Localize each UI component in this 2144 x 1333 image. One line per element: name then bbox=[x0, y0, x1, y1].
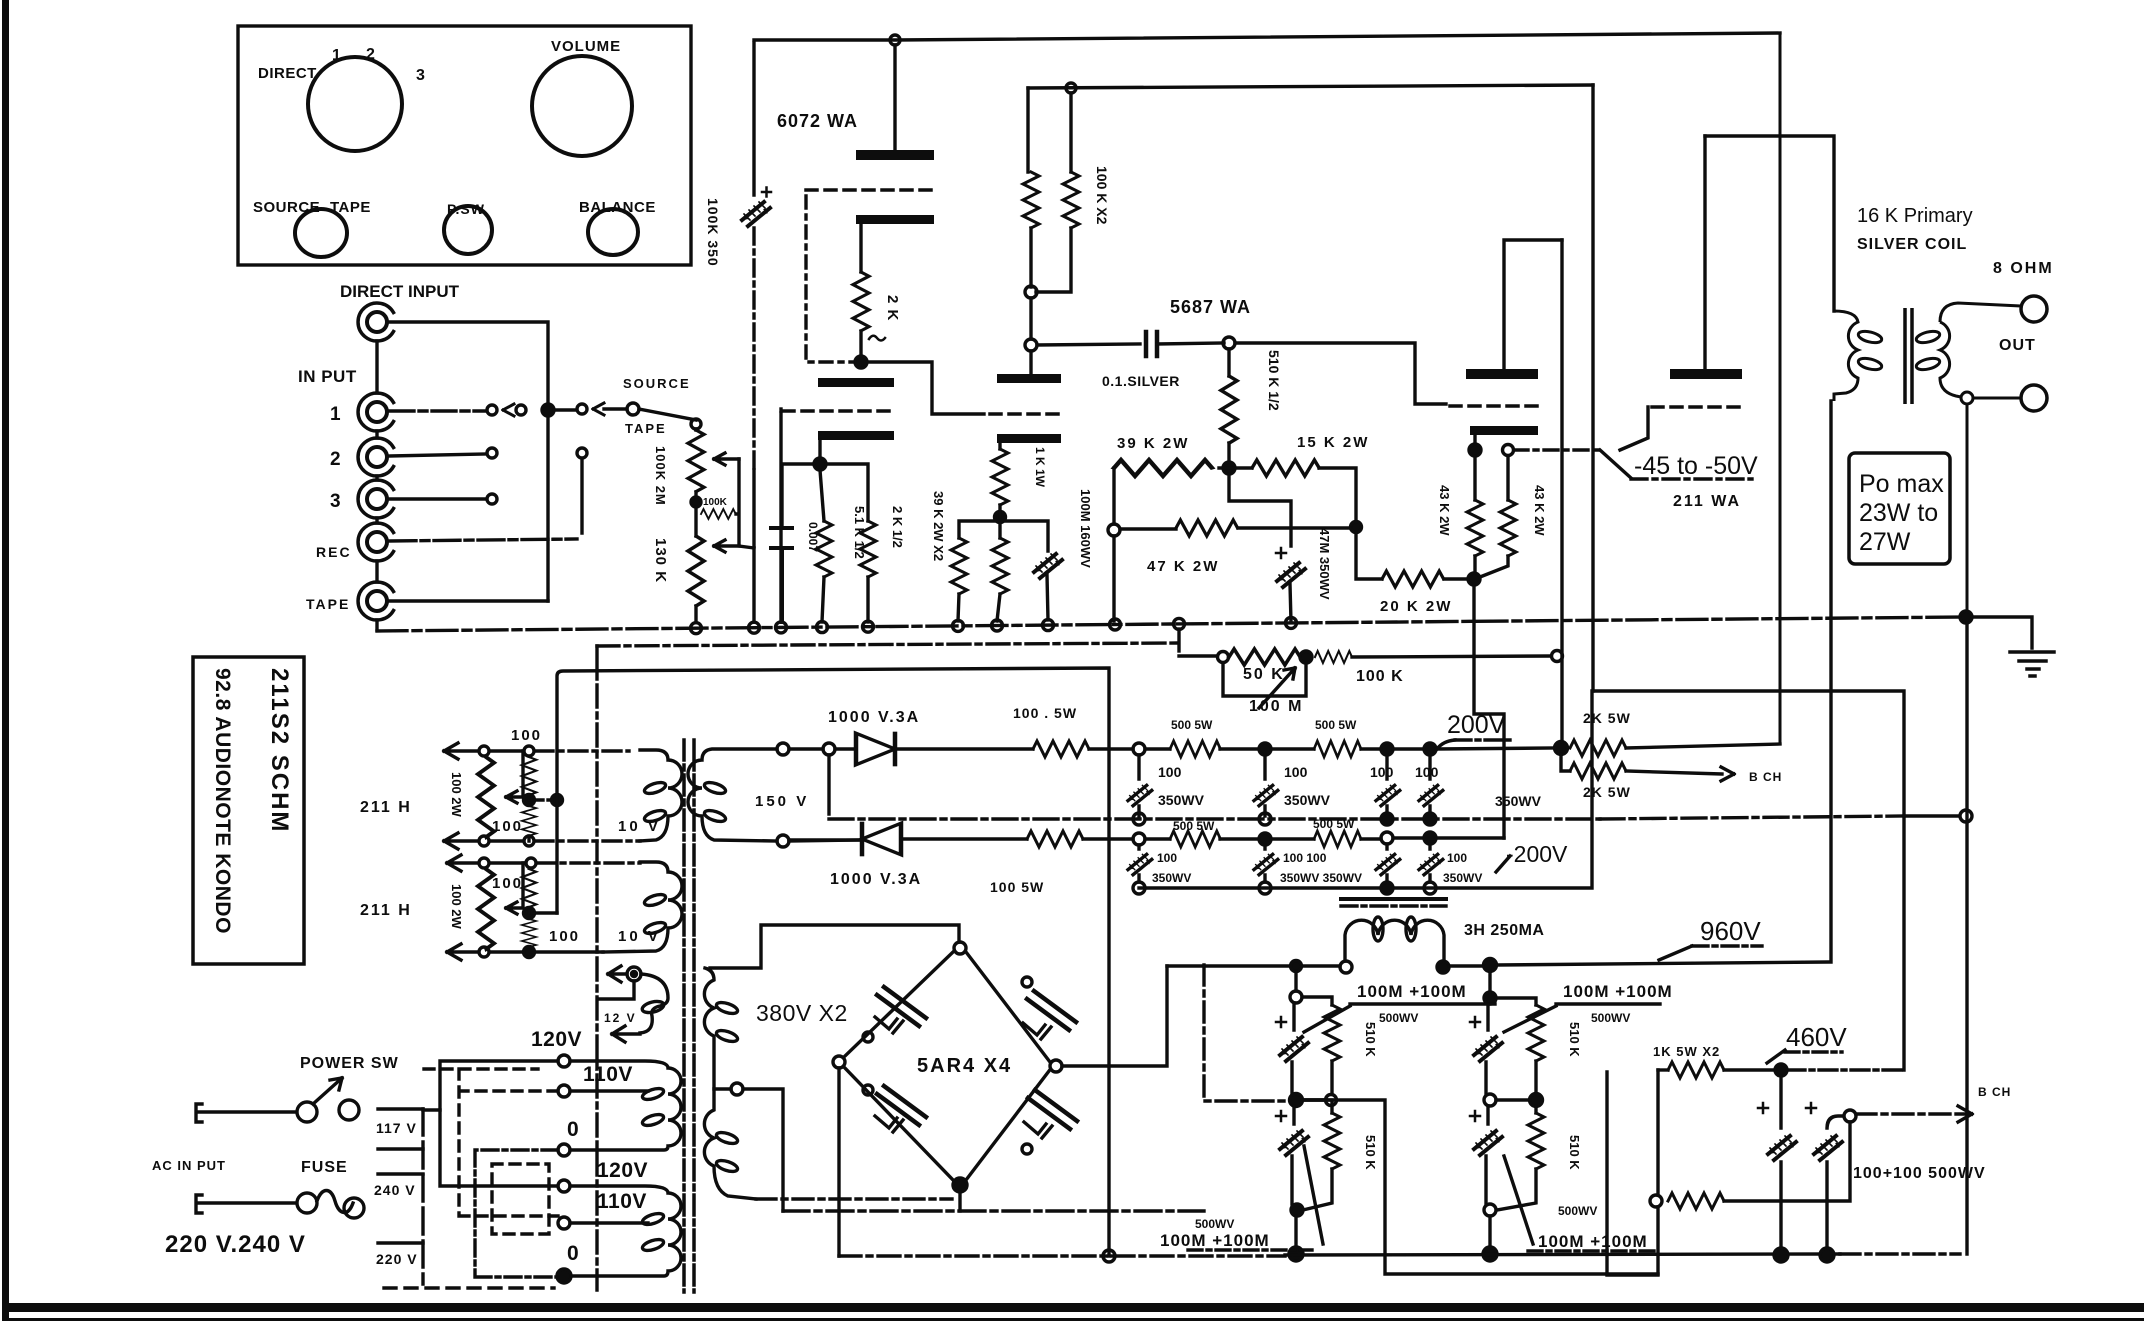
svg-text:1K 5W X2: 1K 5W X2 bbox=[1653, 1044, 1720, 1059]
svg-text:TAPE: TAPE bbox=[306, 596, 350, 612]
wire 100K right bbox=[1352, 656, 1551, 657]
wire bus to ground bbox=[1972, 617, 2032, 648]
grid node ring bbox=[1223, 337, 1235, 349]
junction dot bbox=[1259, 743, 1271, 755]
cap risers bbox=[1781, 1076, 1843, 1250]
svg-text:100 K X2: 100 K X2 bbox=[1094, 166, 1110, 225]
12V terminal bbox=[627, 967, 641, 981]
svg-text:100+100 500WV: 100+100 500WV bbox=[1853, 1165, 1986, 1182]
resistor 39K 2W bbox=[1114, 460, 1212, 476]
bus dots lower right bbox=[1774, 1248, 1788, 1262]
vertical 1779 from top rail bbox=[1779, 33, 1782, 744]
contact arrow bbox=[503, 404, 514, 416]
right bank drop bbox=[1488, 971, 1491, 992]
switch contacts bbox=[297, 1102, 317, 1122]
svg-text:211 H: 211 H bbox=[360, 902, 412, 919]
title box bbox=[193, 657, 304, 964]
top B+ rail bbox=[754, 33, 1780, 40]
bridge bottom link bbox=[958, 1192, 961, 1211]
bus junction bbox=[992, 620, 1003, 631]
svg-text:POWER SW: POWER SW bbox=[300, 1055, 399, 1072]
resistor 43K b bbox=[1500, 500, 1516, 556]
svg-text:2K 5W: 2K 5W bbox=[1583, 784, 1631, 800]
node diamond bbox=[1530, 1094, 1543, 1107]
resistor 100 5W lower bbox=[1027, 831, 1083, 847]
OUT return lower vertical bbox=[1965, 623, 1968, 1254]
svg-text:B CH: B CH bbox=[1978, 1085, 2011, 1099]
wire ring down bbox=[1112, 536, 1115, 621]
svg-text:39 K 2W X2: 39 K 2W X2 bbox=[931, 491, 946, 561]
resistor 39K 2W X2 a bbox=[951, 538, 967, 594]
460V row bbox=[1658, 1068, 1668, 1071]
tube 6072b cathode bar bbox=[997, 374, 1061, 383]
100K bottoms bbox=[1031, 228, 1071, 292]
left bank drop bbox=[1294, 972, 1297, 991]
contact above REC riser bbox=[577, 448, 587, 458]
svg-text:500 5W: 500 5W bbox=[1313, 817, 1355, 831]
pot 100 2W a bbox=[478, 757, 494, 837]
choke loop a bbox=[1373, 917, 1383, 941]
second rail 460V bbox=[1028, 85, 1593, 88]
cathode2 lead bbox=[818, 440, 821, 458]
wire cap to grid node bbox=[1157, 343, 1224, 344]
bridge left ring bbox=[833, 1056, 845, 1068]
resistor 100 a2 bbox=[522, 806, 536, 836]
knob P.SW bbox=[444, 206, 492, 254]
border bottom bbox=[2, 1303, 2144, 1312]
svg-text:92.8 AUDIONOTE KONDO: 92.8 AUDIONOTE KONDO bbox=[211, 668, 234, 934]
svg-text:220 V.240 V: 220 V.240 V bbox=[165, 1231, 306, 1258]
960V rail bbox=[1497, 401, 1831, 965]
cathode bypass cap (panel line) bbox=[742, 202, 770, 226]
wire to B CH arrow bbox=[1626, 767, 1734, 781]
svg-text:100: 100 bbox=[1415, 764, 1439, 780]
switch wire bbox=[196, 1104, 296, 1122]
contact bbox=[577, 404, 587, 414]
jack input 2 bbox=[358, 438, 393, 476]
junction dot bbox=[1300, 651, 1312, 663]
knob DIRECT bbox=[308, 57, 402, 151]
jack input 1 bbox=[358, 393, 393, 431]
left 510K loop top bbox=[1302, 997, 1332, 1005]
bus dot bbox=[1483, 1247, 1497, 1261]
junction left bank bbox=[1291, 961, 1302, 972]
capacitor 100 350WV b bbox=[1254, 785, 1278, 805]
resistor 510 K d bbox=[1528, 1113, 1544, 1169]
capacitor 100M 160WV bbox=[1034, 554, 1062, 578]
valve 5AR4 TL bbox=[875, 987, 926, 1033]
svg-text:150 V: 150 V bbox=[755, 793, 809, 810]
mid bus end ring bbox=[1960, 810, 1972, 822]
svg-text:1 K 1W: 1 K 1W bbox=[1033, 447, 1047, 488]
pot lower element bbox=[688, 536, 704, 606]
wire source to pot bbox=[604, 409, 696, 420]
svg-text:500WV: 500WV bbox=[1195, 1217, 1234, 1231]
resistor 39K 2W X2 b bbox=[992, 538, 1008, 594]
jack input 3 bbox=[358, 480, 393, 518]
tie bbox=[1302, 1098, 1326, 1101]
filter cap leads row2 bbox=[1139, 844, 1430, 882]
vertical 1562 bbox=[1560, 240, 1563, 742]
svg-text:510 K 1/2: 510 K 1/2 bbox=[1266, 350, 1282, 411]
resistor 2K bbox=[853, 272, 869, 331]
bottom dashes bbox=[384, 1286, 554, 1289]
resistor 2K 5W upper bbox=[1570, 740, 1626, 756]
resistor 500 5W d bbox=[1314, 831, 1361, 847]
heater rows dashes bbox=[535, 749, 629, 752]
svg-text:350WV: 350WV bbox=[1158, 792, 1205, 808]
wire plate top to OPT bbox=[1705, 136, 1834, 311]
jack REC bbox=[358, 523, 393, 561]
svg-text:100: 100 bbox=[549, 928, 580, 945]
wire down to 200V bbox=[1474, 585, 1504, 838]
svg-text:500 5W: 500 5W bbox=[1315, 718, 1357, 732]
svg-text:100 K: 100 K bbox=[1356, 668, 1404, 685]
resistor 100K X2 a bbox=[1023, 172, 1039, 228]
svg-text:510 K: 510 K bbox=[1567, 1135, 1582, 1170]
choke 3H 250MA winding bbox=[1345, 920, 1444, 961]
12V winding bbox=[640, 974, 668, 1033]
border left bbox=[2, 0, 9, 1321]
plus bbox=[1276, 1111, 1286, 1121]
bus ring bbox=[1103, 1250, 1115, 1262]
wire choke out to node bbox=[1449, 964, 1483, 967]
svg-text:TAPE: TAPE bbox=[330, 199, 371, 216]
vertical 1593 rail bbox=[1591, 85, 1594, 691]
43K leads bbox=[1475, 456, 1508, 577]
primary loop a bbox=[1857, 329, 1883, 345]
svg-text:SOURCE: SOURCE bbox=[253, 199, 320, 216]
svg-text:VOLUME: VOLUME bbox=[551, 38, 621, 55]
capacitor 47M 350WV bbox=[1277, 563, 1305, 587]
svg-text:500WV: 500WV bbox=[1558, 1204, 1597, 1218]
wire bbox=[1361, 837, 1381, 840]
svg-text:500 5W: 500 5W bbox=[1173, 819, 1215, 833]
resistor 500 5W b bbox=[1314, 741, 1361, 757]
1K left vertical bbox=[1656, 1070, 1659, 1195]
svg-text:8 OHM: 8 OHM bbox=[1993, 260, 2054, 277]
svg-text:100M +100M: 100M +100M bbox=[1357, 982, 1467, 1001]
wire 1K b to cap riser bbox=[1724, 1122, 1850, 1201]
tie bbox=[1496, 1098, 1530, 1101]
diode 1000V .3A upper bbox=[856, 733, 895, 765]
wire bbox=[1271, 747, 1314, 750]
OPT primary bottom to 960V bbox=[1830, 401, 1833, 962]
plus marks bbox=[1758, 1103, 1816, 1113]
bridge edge top-right bbox=[966, 952, 1050, 1062]
tube 6072 lower cathode bbox=[818, 431, 894, 440]
tube 211 plate lead bbox=[1703, 136, 1706, 369]
capacitor 100 350WV a bbox=[1128, 785, 1152, 805]
bias flag underline bbox=[1631, 477, 1752, 480]
svg-text:SILVER COIL: SILVER COIL bbox=[1857, 236, 1967, 253]
svg-text:100 2W: 100 2W bbox=[449, 884, 464, 930]
switch arm bbox=[313, 1078, 342, 1104]
resistor 510 K b bbox=[1324, 1113, 1340, 1169]
svg-text:100 M: 100 M bbox=[1249, 698, 1303, 715]
right 510K d loop bbox=[1534, 1106, 1537, 1113]
svg-text:15 K 2W: 15 K 2W bbox=[1297, 434, 1369, 451]
mid dash bus bbox=[829, 817, 1600, 820]
cathode ring bbox=[1503, 445, 1514, 456]
tube 6072b plate bbox=[997, 434, 1061, 443]
svg-text:AC IN PUT: AC IN PUT bbox=[152, 1158, 226, 1173]
wire bridge to choke bbox=[1167, 964, 1340, 967]
bridge edge bottom-left bbox=[844, 1067, 953, 1180]
HV winding 380V X2 bbox=[704, 968, 756, 1199]
svg-text:16 K Primary: 16 K Primary bbox=[1857, 205, 1973, 227]
wire to node bbox=[1724, 1068, 1775, 1071]
bus junction bbox=[1286, 617, 1297, 628]
460V routing bbox=[1593, 691, 1904, 1070]
svg-text:510 K: 510 K bbox=[1363, 1135, 1378, 1170]
tube 6072 upper grid bbox=[806, 188, 934, 192]
bus junction dot right bbox=[1960, 611, 1972, 623]
bus junction bbox=[953, 620, 964, 631]
-200V tick bbox=[1496, 856, 1510, 872]
wire bbox=[1083, 837, 1133, 840]
OPT core bbox=[1905, 308, 1912, 404]
wire bbox=[1271, 837, 1314, 840]
contact arrow bbox=[593, 403, 604, 415]
bus junction bbox=[749, 622, 760, 633]
junction 15K right bbox=[1351, 522, 1362, 533]
rail junction bbox=[1066, 83, 1076, 93]
HV loops bbox=[715, 1000, 739, 1015]
node B feed to lower bus bbox=[1302, 1100, 1658, 1274]
mid bus extension right bbox=[1600, 816, 1904, 819]
choke loop b bbox=[1406, 917, 1416, 941]
ring bbox=[1650, 1195, 1662, 1207]
svg-text:1000 V.3A: 1000 V.3A bbox=[828, 709, 920, 726]
svg-text:100: 100 bbox=[1370, 764, 1394, 780]
junction ring bbox=[1133, 833, 1145, 845]
B CH node ring bbox=[1844, 1110, 1856, 1122]
loop join bbox=[1497, 1169, 1536, 1210]
capacitor 100M b bbox=[1280, 1131, 1308, 1155]
svg-text:240 V: 240 V bbox=[374, 1182, 416, 1198]
line A corner bbox=[597, 643, 1178, 646]
svg-text:100: 100 bbox=[1447, 851, 1467, 865]
tube 6072b grid bbox=[990, 412, 1062, 416]
pot top lead bbox=[694, 429, 697, 622]
svg-text:100M 160WV: 100M 160WV bbox=[1078, 489, 1093, 568]
svg-text:10 V: 10 V bbox=[618, 818, 661, 835]
wiper b bbox=[506, 863, 523, 914]
left rail from panel bbox=[752, 43, 755, 195]
svg-text:IN PUT: IN PUT bbox=[298, 367, 357, 386]
bus rings bbox=[1133, 813, 1145, 825]
end ring bbox=[1552, 651, 1563, 662]
svg-text:211 WA: 211 WA bbox=[1673, 493, 1741, 510]
bus junction bbox=[1174, 618, 1185, 629]
terminals 120V/110V/0 bbox=[558, 1055, 570, 1067]
left rail lower bbox=[752, 470, 755, 622]
wire row2 to corner bbox=[1436, 836, 1504, 839]
wire bbox=[1220, 747, 1259, 750]
svg-text:DIRECT INPUT: DIRECT INPUT bbox=[340, 282, 460, 301]
wire hv row lower bbox=[789, 839, 1027, 840]
tube 6072 lower plate bbox=[818, 378, 894, 387]
pot 50 K bbox=[1229, 649, 1300, 665]
wire to 200V node bbox=[1436, 748, 1555, 749]
svg-text:500WV: 500WV bbox=[1379, 1011, 1418, 1025]
wire to OUT bottom bbox=[1973, 397, 2021, 400]
svg-text:100K 2M: 100K 2M bbox=[653, 446, 668, 506]
loudness tap resistor 100K bbox=[701, 509, 736, 519]
bottoms to bus bbox=[958, 575, 1048, 621]
resistor 500 5W a bbox=[1170, 741, 1220, 757]
svg-text:27W: 27W bbox=[1859, 528, 1911, 556]
svg-text:510 K: 510 K bbox=[1363, 1022, 1378, 1057]
svg-text:220 V: 220 V bbox=[376, 1251, 418, 1267]
capacitor 100M d bbox=[1474, 1131, 1502, 1155]
svg-text:500WV: 500WV bbox=[1591, 1011, 1630, 1025]
bus dot bbox=[1289, 1247, 1303, 1261]
svg-text:3: 3 bbox=[416, 67, 425, 84]
capacitor 100M a bbox=[1280, 1037, 1308, 1061]
39K left bend bbox=[1112, 468, 1115, 524]
resistor 100K X2 b bbox=[1063, 172, 1079, 228]
fuse wire bbox=[196, 1195, 296, 1213]
svg-text:350WV: 350WV bbox=[1443, 871, 1482, 885]
svg-text:3: 3 bbox=[330, 491, 341, 512]
10V winding b bbox=[603, 862, 682, 952]
svg-text:110V: 110V bbox=[583, 1063, 633, 1086]
svg-text:130 K: 130 K bbox=[652, 538, 669, 583]
drop to 50K chain bbox=[1177, 629, 1180, 651]
wiper a bbox=[506, 751, 523, 803]
junction dot bbox=[524, 795, 535, 806]
resistor 2K 5W lower bbox=[1570, 763, 1626, 779]
CT bus bbox=[783, 1209, 1204, 1212]
svg-text:43 K 2W: 43 K 2W bbox=[1532, 485, 1547, 536]
hum bus vertical bbox=[557, 668, 1109, 1256]
cap 0.007 feed bbox=[782, 464, 814, 526]
wire DIRECT to selector vertical bbox=[390, 322, 548, 601]
rail corner down bbox=[1026, 88, 1029, 172]
node 39K/15K bbox=[1223, 462, 1235, 474]
svg-text:350WV: 350WV bbox=[1284, 792, 1331, 808]
pot 100 2W b bbox=[478, 869, 494, 949]
tube 5687 cathode bbox=[1470, 426, 1538, 435]
bus junction bbox=[1110, 619, 1121, 630]
svg-text:0: 0 bbox=[567, 1242, 579, 1265]
left 510K b loop bbox=[1302, 1100, 1332, 1113]
plus bbox=[1276, 1017, 1286, 1027]
tap routing dashed bbox=[424, 1069, 558, 1216]
bridge right ring bbox=[1050, 1060, 1062, 1072]
wire pot line upper bbox=[779, 409, 782, 411]
svg-text:500 5W: 500 5W bbox=[1171, 718, 1213, 732]
svg-text:FUSE: FUSE bbox=[301, 1159, 348, 1176]
ring bbox=[1326, 1095, 1337, 1106]
secondary loop b bbox=[1915, 356, 1941, 372]
wire REC row bbox=[390, 539, 577, 541]
junction dot bbox=[1259, 833, 1271, 845]
svg-text:20 K 2W: 20 K 2W bbox=[1380, 598, 1452, 615]
2K 5W lower bend bbox=[1561, 754, 1570, 771]
fuse bbox=[297, 1193, 317, 1213]
ground bus (main) bbox=[377, 617, 1966, 631]
capacitor row2 d bbox=[1419, 854, 1443, 874]
960V node bbox=[1484, 959, 1497, 972]
svg-text:P.SW: P.SW bbox=[447, 201, 485, 217]
svg-text:Po max: Po max bbox=[1859, 470, 1944, 498]
svg-text:100: 100 bbox=[492, 875, 523, 892]
junction ring bbox=[1025, 286, 1037, 298]
rail junction bbox=[890, 35, 900, 45]
svg-text:120V: 120V bbox=[597, 1159, 648, 1182]
dash feed from bridge right bbox=[1204, 965, 1289, 1101]
capacitor 100+100 b bbox=[1814, 1136, 1842, 1160]
svg-text:110V: 110V bbox=[597, 1190, 647, 1213]
left rail dash-dot bbox=[752, 228, 755, 470]
bus junction bbox=[817, 622, 828, 633]
primary loop b bbox=[1857, 356, 1883, 372]
svg-text:47M 350WV: 47M 350WV bbox=[1317, 528, 1332, 600]
tube 6072 upper plate bbox=[856, 150, 934, 160]
svg-text:43 K 2W: 43 K 2W bbox=[1437, 485, 1452, 536]
svg-text:39 K 2W: 39 K 2W bbox=[1117, 435, 1189, 452]
front panel outline bbox=[238, 26, 691, 265]
jack DIRECT INPUT bbox=[358, 303, 393, 341]
cathode lead bbox=[859, 224, 862, 272]
left bank lower cap bbox=[1292, 1106, 1294, 1204]
left bank top ring bbox=[1290, 991, 1302, 1003]
junction ring bbox=[1381, 832, 1393, 844]
svg-text:5687 WA: 5687 WA bbox=[1170, 297, 1251, 317]
960V callout bbox=[1659, 946, 1692, 960]
Po max box bbox=[1849, 453, 1950, 564]
feedback tap wire bbox=[1229, 474, 1291, 546]
svg-text:TAPE: TAPE bbox=[625, 421, 667, 436]
junction dot bbox=[524, 908, 535, 919]
resistor 500 5W c bbox=[1170, 831, 1220, 847]
junction ring bbox=[1133, 743, 1145, 755]
bias dash line bbox=[1514, 448, 1600, 451]
resistor 1K 5W b bbox=[1668, 1193, 1724, 1209]
resistor 100 a1 bbox=[522, 757, 536, 795]
choke out dot bbox=[1437, 961, 1449, 973]
200V callout bbox=[1437, 740, 1455, 749]
volume pot 130K top bbox=[691, 419, 701, 429]
svg-text:2: 2 bbox=[366, 46, 375, 63]
loop join bbox=[1303, 1169, 1332, 1210]
mid tap dash bbox=[535, 798, 551, 801]
wiper 1 arrow bbox=[714, 453, 739, 465]
tube 6072 lower grid bbox=[783, 409, 894, 413]
svg-text:BALANCE: BALANCE bbox=[579, 199, 656, 216]
tube 211 plate bbox=[1670, 369, 1742, 379]
tube 5687 plate bbox=[1466, 369, 1538, 379]
150V terminals bbox=[777, 743, 789, 755]
right bank lower cap bbox=[1486, 1106, 1488, 1204]
svg-text:3H 250MA: 3H 250MA bbox=[1464, 922, 1544, 939]
svg-text:1: 1 bbox=[330, 404, 341, 425]
bus rings row3 bbox=[1133, 882, 1145, 894]
wire bbox=[1361, 747, 1381, 750]
6072 anode lead bbox=[893, 45, 896, 150]
valve 5AR4 BR bbox=[1024, 1090, 1077, 1138]
filter cap leads row1 bbox=[1139, 755, 1430, 816]
capacitor 0.007 bbox=[771, 528, 792, 622]
border bottom thin bbox=[2, 1318, 2144, 1321]
transformer core lines bbox=[684, 740, 694, 1292]
wiper bus bbox=[736, 459, 754, 548]
coupling line to 5687 bbox=[1037, 344, 1140, 345]
drop to bus bbox=[1294, 1216, 1297, 1247]
